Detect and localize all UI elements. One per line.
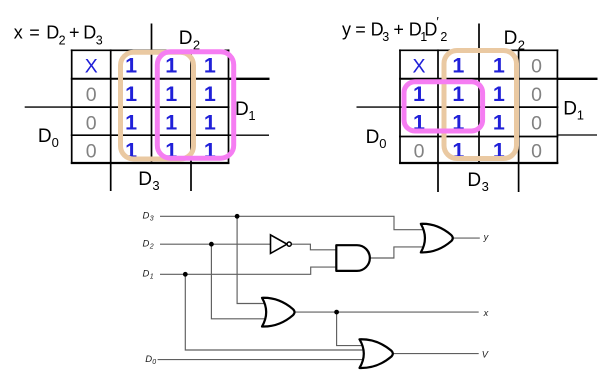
svg-text:D: D xyxy=(143,211,150,222)
right K-map D3 ticks (bottom) xyxy=(437,163,439,192)
svg-text:0: 0 xyxy=(86,84,97,106)
svg-text:1: 1 xyxy=(150,274,154,281)
wire D0 to bottom OR xyxy=(158,359,372,361)
title y = D3 + D1D'2 xyxy=(342,14,447,44)
right K-map label D3 xyxy=(467,170,488,194)
svg-text:1: 1 xyxy=(204,54,216,78)
svg-text:2: 2 xyxy=(518,38,525,53)
left K-map cell values xyxy=(85,54,216,163)
svg-text:0: 0 xyxy=(531,141,542,163)
wire AND output to OR1 xyxy=(370,247,432,258)
wire inverter output to AND xyxy=(292,244,346,250)
svg-text:D: D xyxy=(143,269,150,280)
svg-text:2: 2 xyxy=(59,33,66,47)
svg-text:0: 0 xyxy=(531,113,542,135)
wire x branch to bottom OR xyxy=(337,312,370,346)
left K-map label D1 xyxy=(235,99,256,123)
svg-text:3: 3 xyxy=(482,179,489,194)
right K-map label D1 xyxy=(563,98,584,122)
node on D2 line xyxy=(209,242,214,247)
right K-map D0 line (left) xyxy=(357,106,401,108)
left K-map pink group (columns 3-4) xyxy=(157,52,233,158)
wire OR1 output y xyxy=(453,237,480,239)
wire bottom OR output V xyxy=(393,353,478,355)
svg-text:1: 1 xyxy=(452,54,464,78)
svg-text:D: D xyxy=(467,170,481,191)
svg-text:3: 3 xyxy=(150,216,154,223)
node on D1 line xyxy=(183,272,188,277)
svg-text:1: 1 xyxy=(165,54,177,78)
svg-text:1: 1 xyxy=(493,82,505,106)
svg-text:1: 1 xyxy=(125,54,137,78)
right K-map cell values xyxy=(412,54,542,163)
right K-map label D2 xyxy=(504,28,525,52)
svg-text:+: + xyxy=(69,23,80,43)
svg-text:0: 0 xyxy=(379,136,386,151)
left K-map grid xyxy=(71,49,230,163)
left K-map label D0 xyxy=(38,126,59,150)
inverter (NOT gate) xyxy=(271,235,292,254)
circuit input label D2 xyxy=(143,238,154,250)
wire middle OR output x xyxy=(295,311,479,313)
svg-text:1: 1 xyxy=(248,108,255,123)
svg-text:3: 3 xyxy=(152,178,159,193)
svg-text:3: 3 xyxy=(382,30,389,44)
svg-text:X: X xyxy=(412,56,425,78)
wire D3 branch to middle OR xyxy=(237,216,274,303)
svg-text:X: X xyxy=(85,56,98,78)
svg-text:D: D xyxy=(138,169,152,190)
svg-text:=: = xyxy=(355,19,366,39)
svg-text:D: D xyxy=(563,98,577,119)
wire D2 to inverter xyxy=(160,243,271,245)
svg-text:1: 1 xyxy=(413,82,425,106)
wire D3 horizontal xyxy=(160,216,432,229)
svg-text:1: 1 xyxy=(204,111,216,135)
wire D2 branch to middle OR xyxy=(211,244,274,319)
AND gate xyxy=(336,245,370,271)
node on x line xyxy=(334,310,339,315)
right K-map label D0 xyxy=(366,127,387,151)
svg-text:1: 1 xyxy=(165,82,177,106)
right K-map D1 lines (right) xyxy=(557,78,597,80)
svg-text:2: 2 xyxy=(149,244,154,251)
svg-text:V: V xyxy=(482,349,489,359)
svg-text:D: D xyxy=(235,99,249,120)
svg-text:0: 0 xyxy=(86,113,97,135)
svg-text:1: 1 xyxy=(452,82,464,106)
svg-text:1: 1 xyxy=(493,54,505,78)
left K-map label D2 xyxy=(179,28,200,52)
svg-text:2: 2 xyxy=(440,30,447,44)
left K-map D0 line (left) xyxy=(25,106,72,108)
svg-text:D: D xyxy=(83,23,96,43)
right K-map D2 tick (top) xyxy=(478,24,480,50)
left K-map D2 tick (top) xyxy=(151,24,153,50)
svg-text:1: 1 xyxy=(204,82,216,106)
svg-text:1: 1 xyxy=(577,108,584,123)
svg-text:D: D xyxy=(145,354,152,365)
svg-text:x: x xyxy=(14,23,23,43)
right K-map tan group (columns 2-3) xyxy=(444,51,517,159)
right K-map pink group (rows 2-3, columns 1-2) xyxy=(404,82,483,131)
svg-text:3: 3 xyxy=(96,33,103,47)
svg-text:′: ′ xyxy=(436,14,439,29)
title x = D2 + D3 xyxy=(14,23,103,48)
svg-text:1: 1 xyxy=(125,111,137,135)
svg-text:0: 0 xyxy=(531,56,542,78)
node on D3 line xyxy=(235,214,240,219)
svg-text:D: D xyxy=(366,127,380,148)
OR gate x (middle) xyxy=(262,298,295,327)
svg-text:+: + xyxy=(393,19,404,39)
svg-text:=: = xyxy=(29,23,40,43)
circuit input label D0 xyxy=(145,354,156,366)
circuit input label D1 xyxy=(143,269,154,281)
circuit input label D3 xyxy=(143,211,154,223)
svg-text:D: D xyxy=(143,238,150,249)
svg-text:D: D xyxy=(504,28,518,49)
left K-map D1 lines (right) xyxy=(229,78,270,80)
svg-text:y: y xyxy=(342,19,351,39)
svg-text:1: 1 xyxy=(125,82,137,106)
left K-map tan group (columns 2-3) xyxy=(121,52,194,159)
svg-text:x: x xyxy=(483,308,489,318)
wire D1 branch to bottom OR xyxy=(185,274,370,350)
svg-text:D: D xyxy=(38,126,52,147)
svg-text:0: 0 xyxy=(414,141,425,163)
wire D1 to AND xyxy=(160,267,346,274)
svg-text:1: 1 xyxy=(493,111,505,135)
right K-map grid xyxy=(399,49,558,163)
svg-text:1: 1 xyxy=(165,111,177,135)
svg-text:D: D xyxy=(46,23,59,43)
left K-map D3 ticks (bottom) xyxy=(110,163,112,191)
svg-text:0: 0 xyxy=(52,135,59,150)
svg-text:0: 0 xyxy=(86,141,97,163)
OR gate V (bottom) xyxy=(360,339,393,368)
svg-text:0: 0 xyxy=(531,84,542,106)
svg-text:D: D xyxy=(179,28,193,49)
svg-text:y: y xyxy=(483,232,490,242)
left K-map label D3 xyxy=(138,169,159,193)
svg-text:0: 0 xyxy=(152,359,156,366)
OR gate y (top right) xyxy=(421,224,453,253)
